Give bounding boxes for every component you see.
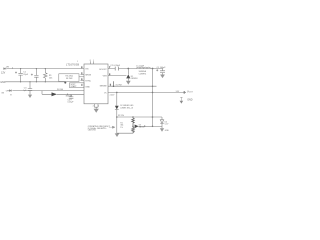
ground symbol under D1: [126, 81, 131, 85]
ground symbol under C3: [28, 95, 32, 98]
wire SW pin to diode: [108, 75, 126, 77]
svg-text:START: START: [71, 85, 78, 88]
wire FB tie vertical: [113, 81, 115, 86]
capacitor C5 boost: [115, 67, 118, 71]
node junction C4 tap: [67, 94, 68, 95]
svg-text:R3 22kΩ: R3 22kΩ: [66, 75, 74, 77]
svg-text:1: 1: [77, 61, 78, 63]
pin 5 bottom stub b: [97, 104, 99, 108]
svg-text:R4 100: R4 100: [57, 89, 63, 91]
pin 4 bottom stub a: [93, 104, 95, 108]
wire pin SYNC lead: [81, 80, 85, 82]
diode D1 catch: [126, 69, 130, 81]
wire GND rail bottom: [6, 81, 66, 83]
svg-text:VIN: VIN: [85, 69, 89, 71]
wire pin SHDN lead: [81, 74, 85, 76]
node junction divider right: [152, 116, 154, 118]
svg-text:1N5818: 1N5818: [131, 78, 138, 80]
svg-text:12V: 12V: [1, 71, 6, 74]
svg-text:4: 4: [81, 85, 82, 87]
wire output node vertical: [152, 69, 154, 127]
wire bottom stubs join: [94, 107, 98, 109]
svg-text:8: 8: [90, 60, 91, 62]
wire box A to pin SHDN: [79, 76, 84, 78]
svg-text:ON: ON: [1, 92, 4, 94]
svg-text:SHDN: SHDN: [85, 75, 91, 77]
node junction C3 top: [29, 81, 30, 82]
svg-text:SYNC: SYNC: [85, 81, 91, 83]
wire SHDN run: [12, 91, 84, 95]
svg-text:VC: VC: [104, 92, 107, 94]
wire note arrow: [109, 126, 115, 128]
svg-text:SENSE: SENSE: [100, 85, 108, 87]
capacitor C2: [34, 69, 38, 82]
diode D2 on SHDN path: [52, 92, 58, 96]
wire D2 to IC: [57, 93, 84, 95]
node junction C1 top: [20, 68, 21, 69]
svg-text:CATIONS: CATIONS: [88, 129, 97, 132]
svg-text:L1 22µH: L1 22µH: [136, 65, 144, 67]
ground symbol under C6: [160, 75, 165, 79]
ground symbol zener: [160, 128, 164, 132]
svg-text:FILTER: FILTER: [66, 78, 73, 80]
node VIN input terminal: [4, 68, 6, 70]
pin 8 top stub a: [90, 61, 92, 64]
capacitor C3 below ground rail: [28, 82, 32, 95]
diode D4 on FB mid wire: [135, 125, 139, 129]
wire divider mid to output vertical: [139, 125, 153, 127]
node junction SENSE cross: [152, 85, 154, 87]
wire SENSE pin: [108, 85, 157, 87]
node arrow on mid wire: [144, 125, 146, 127]
component box B (optional network): [70, 83, 85, 88]
svg-text:1: 1: [93, 60, 94, 62]
svg-text:BOOST: BOOST: [99, 69, 107, 71]
svg-text:GND: GND: [165, 130, 170, 132]
svg-text:LUMEX SSL-LX: LUMEX SSL-LX: [120, 107, 134, 109]
component box A (optional network): [59, 74, 79, 82]
pin 1 top stub b: [93, 61, 95, 64]
node junction R2 top: [132, 116, 134, 118]
node junction C1 bottom: [20, 81, 21, 82]
svg-text:CDRH74: CDRH74: [139, 73, 147, 75]
wire divider top rail: [117, 116, 162, 118]
svg-text:VSW: VSW: [103, 76, 108, 78]
svg-text:1N4148: 1N4148: [66, 95, 73, 97]
svg-text:GND: GND: [0, 81, 6, 84]
node junction FB LED branch: [116, 92, 118, 94]
svg-text:R2 12k: R2 12k: [118, 115, 124, 117]
capacitor C1: [15, 69, 23, 82]
resistor R3 divider lower: [132, 126, 135, 133]
svg-text:VOUT: VOUT: [187, 90, 194, 94]
node junction divider left: [116, 116, 118, 118]
ground symbol output GND label: [180, 97, 182, 101]
node junction divider mid: [132, 126, 134, 128]
op-amp U1 regulator IC body: [84, 64, 108, 104]
node junction SENSE FB tie: [113, 85, 115, 87]
inductor L1: [137, 67, 151, 68]
node VOUT terminal arrow: [184, 91, 186, 94]
wire VIN rail top: [7, 68, 85, 70]
resistor R1 vertical: [44, 69, 48, 82]
svg-text:22µF: 22µF: [23, 74, 29, 76]
wire FB pin to VOUT: [108, 91, 184, 93]
svg-text:C2 0.33µF: C2 0.33µF: [110, 65, 120, 67]
svg-text:2.42V: 2.42V: [110, 95, 115, 97]
svg-text:OUTPUT: OUTPUT: [116, 85, 123, 87]
node tick input: [12, 67, 14, 68]
node junction R1 top: [45, 68, 46, 69]
svg-text:0.01µF: 0.01µF: [68, 101, 75, 103]
diode D3 LED indicator: [115, 92, 119, 117]
svg-text:GND: GND: [85, 86, 90, 88]
svg-text:C1 100µF: C1 100µF: [157, 67, 167, 69]
svg-text:BAT54: BAT54: [139, 126, 144, 129]
ground symbol under IC: [94, 109, 99, 113]
resistor R2 divider upper: [132, 117, 135, 126]
node SHDN input terminal: [9, 90, 11, 95]
node junction C2 top: [36, 68, 37, 69]
node junction gnd rail to box B: [64, 82, 66, 84]
svg-text:5.1V: 5.1V: [165, 124, 169, 126]
wire divider bottom to ground: [117, 117, 133, 133]
wire BOOST rail: [108, 68, 163, 70]
svg-text:4: 4: [93, 106, 94, 108]
zener D5 right branch: [153, 117, 164, 128]
svg-text:GND: GND: [187, 98, 193, 101]
svg-text:VIN: VIN: [6, 66, 10, 68]
node junction R1 bottom: [45, 81, 46, 82]
node junction SW top rail: [127, 68, 129, 70]
ground symbol divider: [115, 133, 120, 137]
node junction mid wire: [152, 126, 154, 128]
svg-text:1%: 1%: [120, 127, 123, 129]
svg-text:5: 5: [98, 106, 99, 108]
svg-text:10k: 10k: [49, 77, 53, 79]
node junction L1 out: [152, 68, 154, 70]
node junction C2 bottom: [36, 81, 37, 82]
svg-text:8: 8: [81, 67, 82, 69]
node junction VOUT vertical: [152, 92, 154, 94]
capacitor C6 output: [156, 69, 165, 75]
svg-text:LT1676IS8: LT1676IS8: [66, 64, 80, 67]
capacitor C4 small: [69, 94, 74, 100]
